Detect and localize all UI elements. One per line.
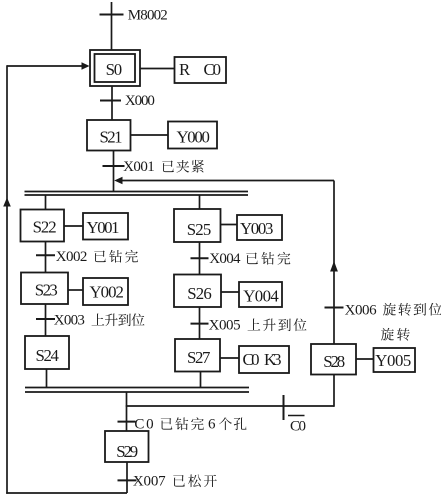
transition X002 — [36, 249, 138, 265]
svg-text:X004: X004 — [209, 251, 241, 267]
svg-text:S22: S22 — [33, 218, 57, 237]
transition X004 — [191, 251, 291, 267]
transition X005 — [191, 318, 307, 334]
svg-text:6: 6 — [208, 417, 216, 433]
action box Y002 — [83, 278, 128, 305]
wire selection branch to S28 — [126, 405, 334, 407]
wire divergence to S22 — [45, 195, 47, 210]
transition M8002 — [100, 8, 168, 24]
parallel convergence double line — [25, 388, 249, 393]
label rotate above Y005 — [381, 328, 410, 341]
svg-text:X003: X003 — [54, 313, 85, 329]
wire loop-return into S0 with right arrowhead — [7, 62, 90, 70]
wire S27 to C0 K3 action — [220, 357, 239, 359]
svg-text:S0: S0 — [106, 60, 123, 79]
up arrowhead on S28 exit wire — [330, 261, 338, 272]
transition X006 — [325, 303, 441, 319]
transition X000 — [100, 93, 155, 109]
svg-text:C0: C0 — [204, 60, 222, 79]
step S26 — [174, 275, 221, 308]
wire main vertical above S0 — [111, 2, 113, 50]
wire S22 to Y001 action — [64, 225, 83, 227]
step S21 — [87, 120, 131, 151]
wire S28 exit up to feedback — [333, 181, 335, 345]
wire S22 to S23 — [45, 242, 47, 273]
step S27 — [175, 339, 220, 372]
wire bottom feedback horizontal — [6, 492, 127, 494]
action box Y004 — [239, 282, 282, 307]
transition X001 — [103, 159, 204, 175]
svg-text:R: R — [179, 60, 191, 79]
step S29 — [105, 431, 149, 462]
svg-text:S23: S23 — [35, 281, 58, 300]
svg-text:Y004: Y004 — [243, 287, 279, 306]
svg-text:X006: X006 — [345, 303, 378, 319]
step S23 — [21, 273, 68, 305]
step S22 — [21, 210, 65, 242]
svg-text:Y003: Y003 — [240, 219, 274, 238]
up arrowhead on left feedback wire — [3, 198, 11, 207]
svg-text:S24: S24 — [35, 346, 59, 365]
wire S29 to bottom feedback — [126, 462, 128, 493]
step S0 (initial, double box) — [90, 50, 140, 86]
transition C0 — [118, 417, 247, 433]
action box Y003 — [237, 215, 282, 240]
wire S26 to Y004 action — [221, 291, 239, 293]
svg-text:X001: X001 — [123, 159, 155, 175]
svg-text:Y002: Y002 — [89, 283, 124, 302]
step S25 — [174, 209, 221, 242]
svg-text:S21: S21 — [100, 128, 123, 147]
svg-text:Y001: Y001 — [87, 218, 120, 237]
svg-text:X000: X000 — [125, 93, 155, 109]
transition X007 — [118, 474, 217, 490]
svg-text:S27: S27 — [187, 348, 211, 367]
parallel divergence double line — [25, 192, 249, 196]
action box Y000 — [168, 122, 217, 149]
svg-text:Y005: Y005 — [375, 351, 411, 370]
step S28 — [311, 344, 356, 375]
wire S28 entry from selection branch — [333, 375, 335, 407]
wire S23 to S24 — [45, 304, 47, 336]
svg-text:X005: X005 — [209, 318, 241, 334]
wire S27 to convergence — [200, 372, 202, 389]
svg-text:M8002: M8002 — [128, 8, 168, 24]
wire left feedback vertical — [6, 65, 8, 494]
transition NOT C0 (vertical tick) — [284, 395, 307, 435]
svg-text:S28: S28 — [323, 352, 345, 371]
wire S0 to S21 — [111, 86, 113, 120]
svg-text:X002: X002 — [56, 249, 88, 265]
svg-text:X007: X007 — [133, 474, 166, 490]
wire S28 to Y005 action — [356, 358, 374, 360]
transition X003 — [36, 313, 145, 329]
wire divergence to S25 — [199, 195, 201, 209]
wire S21 to Y000 action — [131, 134, 169, 136]
wire convergence drop to S29 — [126, 392, 128, 431]
svg-text:S25: S25 — [187, 220, 212, 239]
wire S26 to S27 — [199, 307, 201, 339]
wire S21 to parallel divergence — [113, 151, 115, 192]
wire S25 to Y003 action — [221, 224, 238, 226]
svg-text:S26: S26 — [187, 284, 212, 303]
wire feedback from X006 with left arrowhead — [114, 177, 334, 185]
wire S0 to R C0 action — [140, 68, 175, 70]
svg-text:C0: C0 — [243, 350, 260, 369]
step S24 — [25, 336, 69, 369]
action box Y005 — [374, 348, 416, 372]
wire S25 to S26 — [199, 242, 201, 275]
svg-text:C0: C0 — [290, 419, 306, 435]
action box Y001 — [83, 213, 128, 240]
svg-text:S29: S29 — [116, 442, 138, 461]
action box C0 K3 — [239, 346, 289, 373]
wire S23 to Y002 action — [68, 289, 83, 291]
svg-text:Y000: Y000 — [176, 128, 210, 147]
action box R C0 — [175, 57, 227, 83]
wire S24 to convergence — [46, 369, 48, 388]
svg-text:K3: K3 — [264, 350, 282, 369]
